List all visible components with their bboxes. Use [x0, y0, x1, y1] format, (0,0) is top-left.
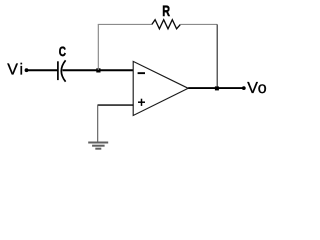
- wire: [98, 23, 152, 25]
- capacitor C: [58, 60, 66, 81]
- wire: [180, 23, 217, 25]
- wire: [188, 87, 243, 89]
- wire: [98, 104, 134, 106]
- wire: [97, 24, 99, 70]
- resistor R: [152, 20, 181, 29]
- wire: [63, 69, 134, 71]
- node Vo terminal: [242, 86, 246, 90]
- svg-text:Vi: Vi: [7, 61, 25, 78]
- wire: [27, 69, 58, 71]
- node Vi terminal: [25, 68, 29, 72]
- svg-text:R: R: [162, 3, 170, 20]
- op-amp U1: [133, 61, 188, 115]
- svg-text:Vo: Vo: [247, 80, 267, 97]
- wire: [97, 105, 99, 142]
- svg-text:C: C: [59, 44, 66, 59]
- node A junction: [96, 68, 100, 72]
- wire: [216, 24, 218, 88]
- node output junction: [215, 86, 219, 90]
- ground: [88, 143, 108, 149]
